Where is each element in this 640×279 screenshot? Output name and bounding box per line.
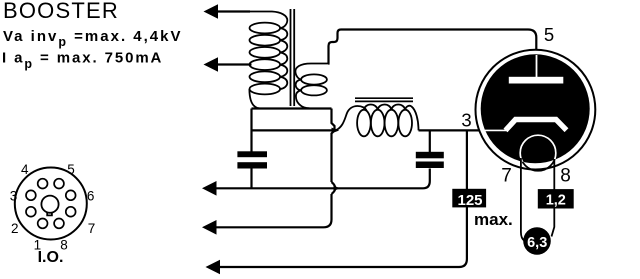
choke L1 winding xyxy=(335,105,419,137)
capacitor C2 xyxy=(416,152,444,168)
svg-text:max.: max. xyxy=(474,210,513,229)
wire hop: vertical crossing A3 line without junction xyxy=(332,182,336,194)
tube V1 heater circle (black part outside disc) xyxy=(520,135,556,171)
svg-text:8: 8 xyxy=(560,166,571,187)
capacitor C1 xyxy=(237,151,267,168)
svg-text:3: 3 xyxy=(461,109,471,130)
terminal arrow A4 (line to secondary-bottom vertical) xyxy=(202,194,332,235)
terminal arrow A2 (to primary tap) xyxy=(204,57,252,72)
transformer T1 secondary winding xyxy=(295,64,329,109)
svg-text:Va invp =max. 4,4kV: Va invp =max. 4,4kV xyxy=(3,28,182,49)
svg-text:5: 5 xyxy=(67,162,75,177)
value label 1,2 (box) xyxy=(538,189,574,208)
svg-text:7: 7 xyxy=(501,166,512,187)
terminal arrow A5 (line to node 3 via 125 box) xyxy=(206,131,467,274)
tube V1 anode bar xyxy=(509,77,564,84)
pin 7 lead xyxy=(521,158,525,241)
pin 8 lead xyxy=(552,159,555,237)
tube V1 anode lead (white inside disc) xyxy=(536,55,538,78)
transformer T1 core xyxy=(291,9,295,106)
junction blob at choke-left node xyxy=(332,128,340,134)
terminal arrow A1 (to primary top) xyxy=(204,4,251,19)
svg-text:2: 2 xyxy=(11,221,19,236)
svg-text:I ap = max. 750mA: I ap = max. 750mA xyxy=(2,50,163,72)
svg-text:I.O.: I.O. xyxy=(38,249,64,266)
svg-text:125: 125 xyxy=(457,192,482,209)
svg-text:7: 7 xyxy=(88,221,96,236)
tube V1 heater circle (white part inside disc) xyxy=(520,135,556,171)
wire: node 3 line from choke to tube xyxy=(419,129,489,131)
wire: right vertical from bus down (with jog) to hop xyxy=(332,109,335,183)
wire: C1 bottom lead xyxy=(250,169,252,190)
svg-text:3: 3 xyxy=(10,189,18,204)
svg-text:4: 4 xyxy=(21,162,29,177)
socket center key xyxy=(41,196,58,216)
choke L1 core xyxy=(355,98,413,101)
svg-text:6: 6 xyxy=(87,189,95,204)
socket base outer circle xyxy=(15,168,87,240)
svg-text:BOOSTER: BOOSTER xyxy=(3,0,119,23)
value label 125 (box) xyxy=(452,189,486,209)
tube V1 cathode lead (white inside disc) xyxy=(485,129,507,131)
wire: C2 top lead xyxy=(429,130,431,152)
tube V1 envelope xyxy=(476,50,596,170)
tube V1 inner disc xyxy=(481,54,590,163)
socket pin holes xyxy=(26,179,76,229)
svg-text:6,3: 6,3 xyxy=(527,235,547,251)
wire: left vertical bus corner down to C1 xyxy=(250,109,252,152)
tube V1 cathode xyxy=(506,120,567,131)
wire: winding-bottom bus xyxy=(252,107,332,109)
wire: anode top lead from secondary to pin 5 xyxy=(328,30,536,64)
heater supply 6,3 (circle) xyxy=(523,227,551,255)
junction blob at hop point xyxy=(334,186,341,191)
svg-text:5: 5 xyxy=(544,24,554,45)
wire: C1 top to choke-left node xyxy=(252,129,336,131)
transformer T1 primary winding xyxy=(249,12,287,109)
svg-text:1,2: 1,2 xyxy=(546,193,566,209)
terminal arrow A3 (line to C2 bottom) xyxy=(202,169,430,196)
